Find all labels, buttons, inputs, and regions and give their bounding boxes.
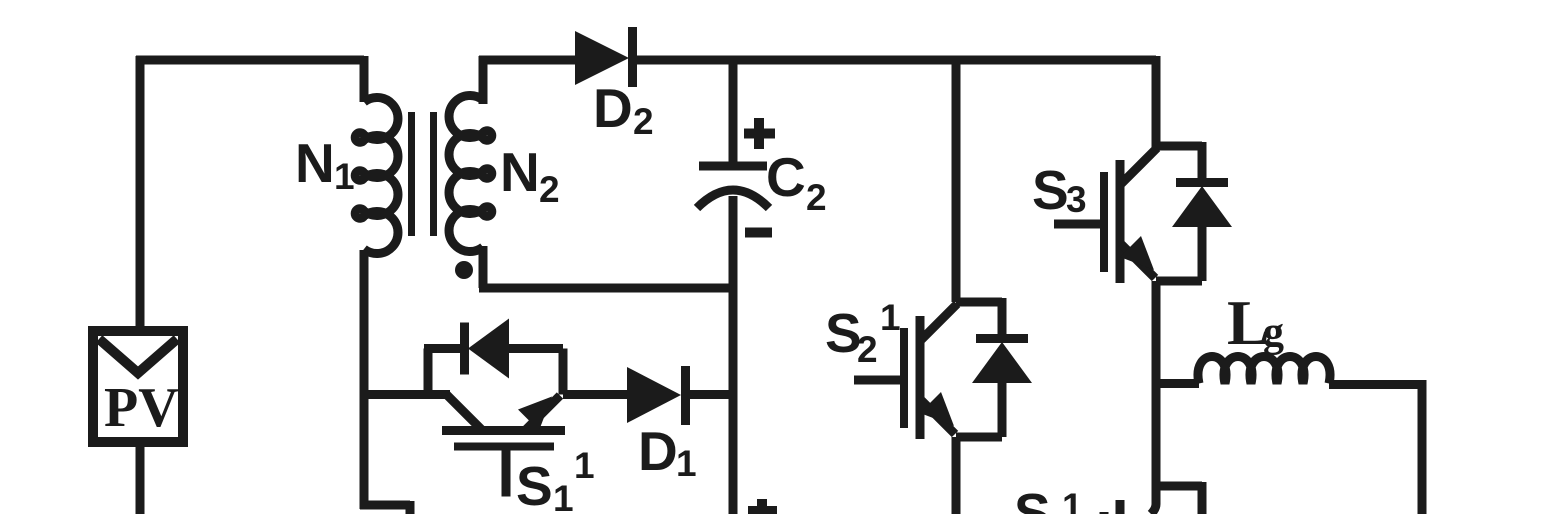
- svg-text:N: N: [500, 141, 540, 203]
- svg-text:1: 1: [880, 297, 901, 338]
- svg-text:1: 1: [574, 445, 595, 486]
- inductor Lg: [1198, 357, 1330, 384]
- svg-text:2: 2: [539, 169, 560, 210]
- wire S1 emitter to D1: [563, 390, 627, 399]
- transformer core: [412, 112, 434, 236]
- PV source box: [93, 331, 183, 442]
- svg-text:S: S: [1014, 482, 1051, 514]
- wire S2 top lead: [952, 56, 961, 302]
- wire primary bottom vertical: [360, 250, 369, 509]
- wire branch to Lg: [1152, 379, 1199, 388]
- wire PV bottom lead: [136, 442, 145, 514]
- svg-text:D: D: [593, 77, 633, 139]
- wire D1 to C-link: [685, 390, 737, 399]
- wire Lg to output corner: [1329, 380, 1426, 389]
- wire C2 bottom lead down to C1: [729, 196, 738, 514]
- wire top-left horizontal: [136, 56, 364, 65]
- diode D2: [575, 27, 633, 87]
- svg-text:PV: PV: [104, 377, 179, 439]
- wire S2 bottom lead: [952, 437, 961, 514]
- svg-text:1: 1: [1062, 486, 1083, 514]
- transistor S2 (IGBT with diode): [854, 298, 1032, 439]
- svg-text:N: N: [295, 132, 335, 194]
- wire top bus D2 to S3: [632, 56, 1156, 65]
- minus sign of C2: [745, 228, 772, 238]
- wire N2 bottom lead: [479, 246, 488, 288]
- svg-text:2: 2: [857, 329, 878, 370]
- plus sign of C2: [744, 118, 775, 149]
- wire bottom-left stub: [360, 501, 410, 514]
- wire node A horizontal (S1 row left): [360, 390, 450, 399]
- svg-text:2: 2: [806, 177, 827, 218]
- transformer secondary winding N2: [449, 96, 492, 252]
- transformer primary winding N1: [355, 98, 398, 254]
- svg-text:S: S: [516, 455, 553, 514]
- svg-text:3: 3: [1066, 179, 1087, 220]
- plus sign of C1 (partial): [748, 499, 777, 514]
- svg-text:C: C: [766, 146, 806, 208]
- wire N2 top lead to D2: [479, 56, 575, 104]
- svg-text:1: 1: [553, 478, 574, 514]
- wire C2 top lead: [729, 56, 738, 162]
- svg-text:D: D: [638, 420, 678, 482]
- wire N1 top lead corner: [360, 56, 369, 102]
- wire N2 bottom to C2 node: [479, 284, 733, 293]
- svg-text:S: S: [1032, 159, 1069, 221]
- wire output right vertical: [1418, 380, 1427, 514]
- wire S3 top lead: [1152, 56, 1161, 150]
- transistor S3 (IGBT with diode): [1054, 142, 1232, 283]
- svg-text:g: g: [1263, 310, 1284, 356]
- diode D1: [627, 366, 686, 425]
- transistor S1 (IGBT with antiparallel diode): [424, 319, 565, 497]
- svg-text:1: 1: [676, 443, 697, 484]
- wire left vertical from top wire to PV: [136, 56, 145, 327]
- svg-text:2: 2: [633, 101, 654, 142]
- wire S3 emitter down to S4: [1152, 281, 1161, 490]
- polarity dot: [455, 261, 473, 279]
- transistor S4 (IGBT partial at bottom): [1104, 482, 1202, 514]
- capacitor C2: [697, 166, 769, 208]
- svg-text:1: 1: [334, 156, 355, 197]
